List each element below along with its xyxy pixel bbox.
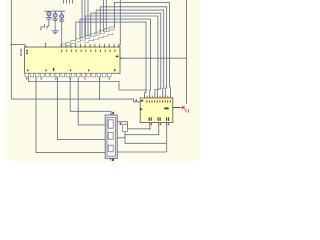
connector top pin number [112,112,114,114]
wire fan 2 [100,7,166,98]
wire bus vertical x100.3 [99,7,101,33]
U2 pin1 number [136,99,137,101]
wire top exit x82 [81,0,83,39]
wire top stub 2 [66,0,68,4]
connector pad 1 [108,120,113,128]
U2 top pin stubs [145,96,171,98]
wire fan 6 [80,19,151,98]
IC U2 [140,98,173,123]
U2 bottom names [149,117,169,120]
U2 bottom pin numbers [151,123,169,125]
U2 right pin stub [173,107,181,109]
ground [52,31,59,34]
IC U1 [25,47,121,73]
connector bottom pin stub [110,158,112,160]
U1 top pin stubs [26,46,119,48]
wire U2 bottom pin3 vertical [166,123,168,153]
wire bus vertical x75.8 [75,22,77,40]
wire bus vertical x85.4 [84,16,86,38]
U2 left clock pin mark [140,108,143,111]
bus staircase thread 1 [61,25,114,44]
wire U1 right pin to right rail [120,57,187,59]
U1 pin 2 stub [45,43,47,47]
U1 right pin stub [120,57,123,59]
wire top exit x106.3 [105,0,107,31]
wire net y143 [125,132,167,144]
wire net left vertical [10,0,12,99]
wire top exit x88 [87,0,89,37]
wire U1 pin to connector pad1 [78,77,105,125]
sheet background [0,0,200,161]
U1 designator [20,49,22,56]
connector pad 2 [108,133,113,140]
wire U1 last top pin [119,0,121,48]
wire fan 7 [76,22,146,98]
wire right rail vertical [186,0,188,104]
wire branch to U1 pin 1 [11,45,25,48]
wire top exit x103.4 [102,0,104,32]
wire hook piece [40,24,45,30]
wire top stub 3 [69,0,71,4]
wire C3 stub [61,22,63,48]
wire U2 bottom pin1 to connector right pin A [117,122,150,129]
junction A [10,44,12,46]
junction C [99,98,101,100]
wire fan 1 [114,2,170,98]
wire fan 4 [91,13,161,98]
U1 bottom pin numbers [26,78,110,80]
wire U1 pin drop to net y99 [99,77,101,99]
wire bus vertical x96.1 [95,10,97,34]
wire fan 3 [96,10,164,98]
connector bottom pin number [112,159,114,161]
wire crystal top rail [44,10,65,12]
bus staircase thread 2 [66,28,114,45]
wire top stub 1 [63,0,65,4]
bus staircase thread 3 [84,33,113,42]
wire top stub 4 [72,0,74,4]
connector J1 inner [107,117,115,156]
power port VOUT [180,106,188,113]
connector pad 3 [108,145,113,152]
U2 bottom pin stubs [150,123,167,127]
connector right pin mark [120,123,122,125]
wire C1 lower lead hook [47,19,49,29]
connector top pin stub [110,113,112,115]
node box [123,125,128,132]
U1 top pin risers [61,44,119,48]
wire U1 pin to connector top pin [70,77,111,115]
wire U1 pin to connector pad2 [57,77,105,139]
junction D [149,128,151,130]
wire fan 5 [85,16,157,98]
wire bus vertical x90.8 [90,13,92,36]
wire C2 to ground [54,21,56,31]
connector J1 [105,115,117,158]
U1 right pin mark [116,56,119,58]
wire long horizontal to U2 left pin [11,99,140,102]
wire U2 bottom pin2 to connector right pin B [117,123,159,138]
U2 top pin numbers [146,100,171,102]
wire connector right pin C [117,151,167,153]
capacitor C2 [52,11,58,20]
U1 left pin numbers [26,50,28,55]
U1 bottom pin boxes [25,73,111,77]
capacitor C1 [46,12,52,20]
wire U1 bottom pin to bus y81 [28,77,146,90]
U1 top pin number row [61,50,120,52]
junction B [145,89,147,91]
wire top exit x84.9 [84,0,86,38]
wire U1 pin to connector pad3 [36,77,105,153]
U2 pin1 name [141,100,143,102]
U2 output name [164,107,168,109]
capacitor C3 [59,11,64,21]
U1 bottom inside name marks [27,68,116,71]
wire bus vertical x80 [79,19,81,39]
